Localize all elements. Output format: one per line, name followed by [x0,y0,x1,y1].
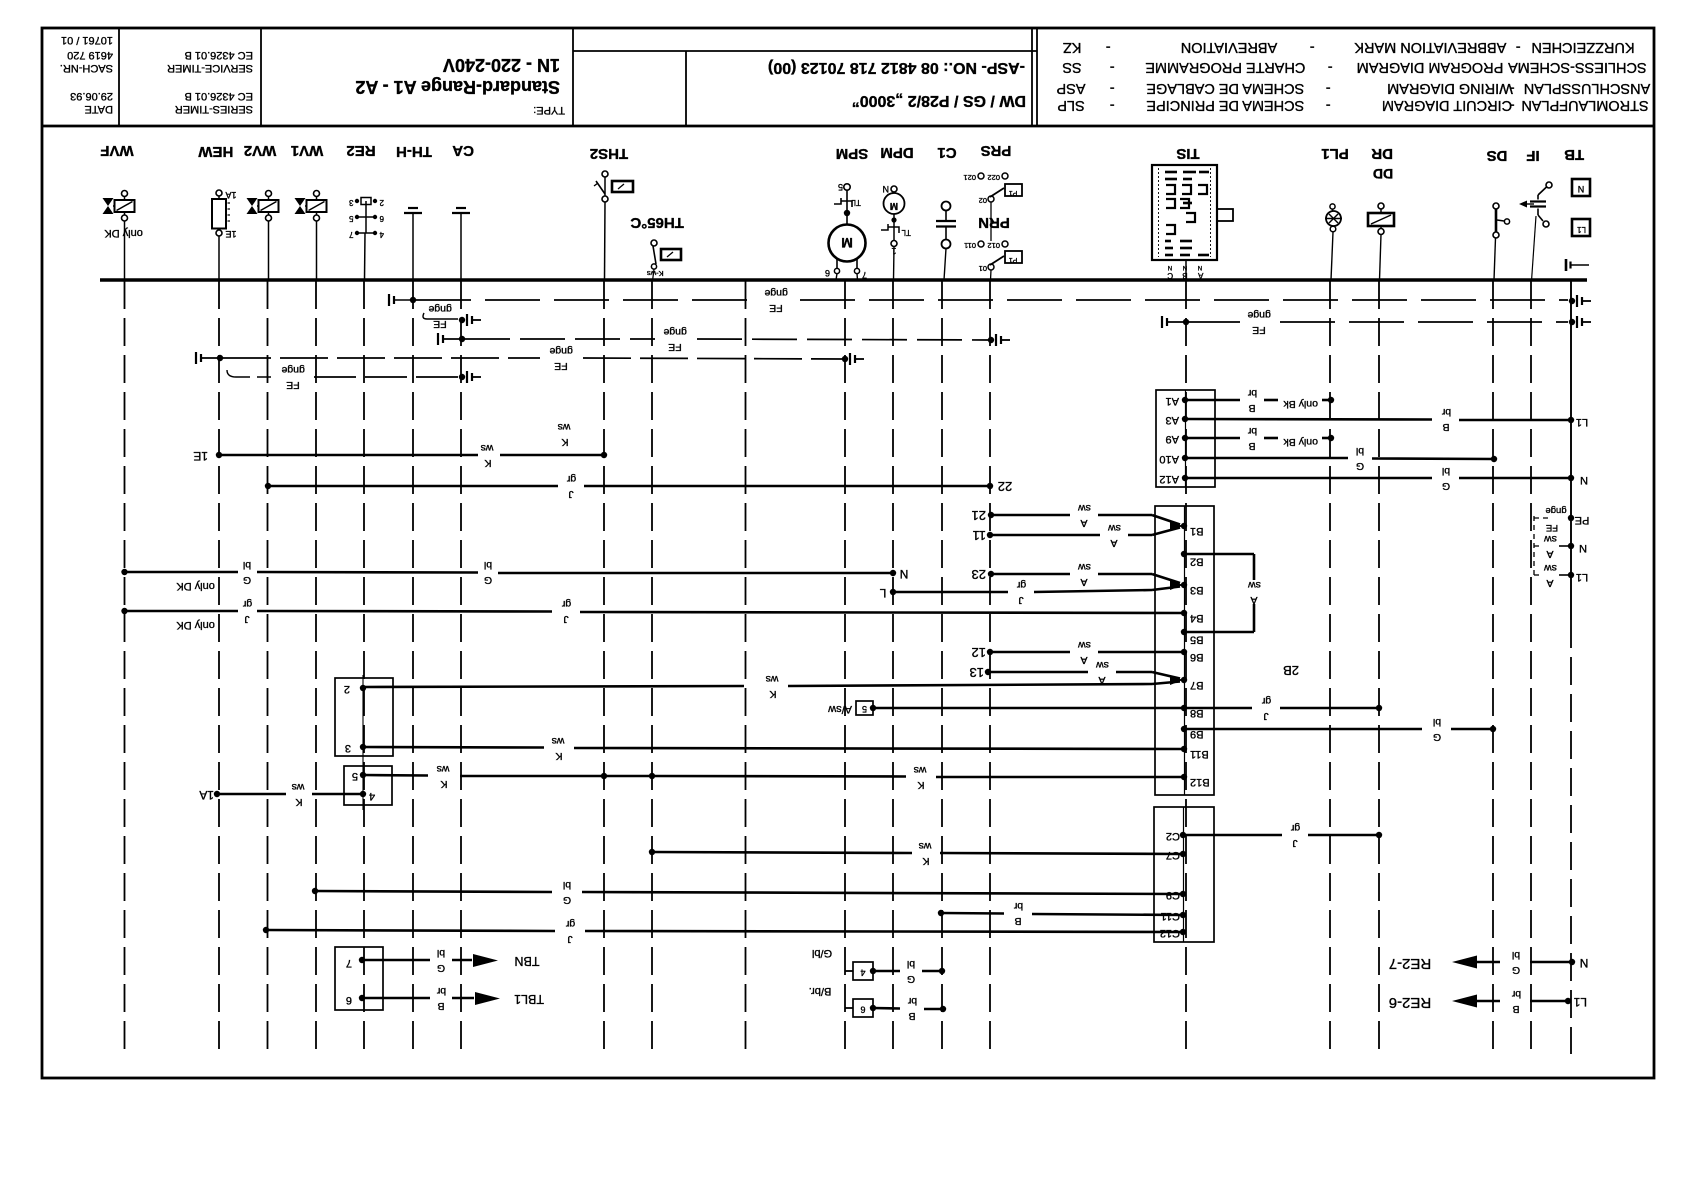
svg-text:N: N [1580,956,1589,970]
inline connector 4 green-blue [812,947,945,985]
svg-text:TL: TL [851,198,861,207]
timer connector A-block [1185,390,1187,487]
earth line FE row E [227,364,481,391]
svg-text:B4: B4 [1190,612,1203,624]
svg-text:SPM: SPM [836,145,869,162]
svg-text:-: - [1110,80,1115,96]
terminal box pins 7-6 [335,947,383,1010]
svg-text:N: N [900,567,909,581]
thermostat THS2 [590,145,633,280]
thermostat TH65&#176;C [630,214,684,281]
svg-text:B: B [1182,271,1187,280]
svg-text:6: 6 [379,214,384,223]
dashed group bracket at mains terminals [1534,516,1552,577]
svg-text:gnge: gnge [281,364,305,376]
svg-text:TH65°C: TH65°C [630,214,684,231]
svg-text:-ASP- NO.: 08 4812 718 70123: -ASP- NO.: 08 4812 718 70123 (00) [768,59,1025,76]
svg-text:sw: sw [1096,659,1109,671]
earth stub FE at CA column upper [423,303,481,330]
wire C12 grey left [263,918,1183,945]
svg-text:01: 01 [979,264,987,273]
wire RE2 pin3 white to B11 [363,735,1184,762]
svg-text:Standard-Range A1 - A2: Standard-Range A1 - A2 [355,77,560,97]
svg-text:TIS: TIS [1176,145,1199,162]
svg-text:CA: CA [452,142,474,159]
svg-text:4: 4 [369,790,375,802]
svg-text:bl: bl [1356,445,1364,457]
svg-text:EC 4326.01 B: EC 4326.01 B [185,90,254,102]
svg-text:A1: A1 [1166,395,1179,407]
svg-text:G: G [1512,964,1520,976]
svg-text:TBL1: TBL1 [514,992,544,1006]
svg-text:gr: gr [561,598,571,610]
svg-text:C1: C1 [937,144,956,161]
svg-text:J: J [567,933,572,945]
label 2B [1283,663,1299,678]
svg-text:gnge: gnge [663,326,687,338]
svg-text:N: N [1168,264,1172,270]
svg-text:only DK: only DK [104,227,143,239]
svg-text:-: - [1516,39,1521,55]
svg-text:ws: ws [481,442,495,454]
wire 22 grey [265,473,1012,500]
svg-text:K: K [484,457,491,469]
wire 1A white to connector4 [199,781,363,808]
terminal PE with earth label [1545,505,1589,533]
wire B8 grey right [1184,695,1382,722]
svg-text:sw: sw [1078,502,1091,514]
earth line FE row C [438,326,1010,353]
output RE2-6 brown [1389,988,1587,1015]
drain pump motor DPM [880,144,913,280]
svg-text:1A: 1A [225,190,236,200]
svg-text:bl: bl [563,879,571,891]
svg-text:G/bl: G/bl [812,947,832,959]
timer connector C-block [1154,807,1214,942]
terminal L1 mains [1544,562,1589,589]
svg-text:K: K [555,750,562,762]
svg-text:FE: FE [554,360,567,372]
svg-text:FE: FE [769,302,782,314]
svg-text:KZ: KZ [1063,39,1082,55]
svg-text:A: A [1546,577,1553,589]
wire TBN blue with arrow [362,947,540,974]
svg-text:-: - [1326,80,1331,96]
svg-text:2B: 2B [1283,663,1299,678]
svg-text:only Bk: only Bk [1283,436,1318,448]
output RE2-7 green-blue [1389,949,1589,976]
svg-text:IF: IF [1526,147,1539,164]
svg-text:021: 021 [963,173,976,182]
timer connector B-block [1155,506,1214,795]
svg-text:13: 13 [970,665,984,680]
svg-text:bl: bl [1442,465,1450,477]
svg-text:C2: C2 [1166,830,1180,842]
wire C2 grey right [1183,822,1382,849]
svg-text:A/sw: A/sw [828,703,852,715]
svg-text:K: K [561,436,568,448]
svg-text:PRN: PRN [978,214,1010,231]
svg-text:B2: B2 [1190,556,1203,568]
svg-text:sw: sw [1544,533,1557,545]
water valve WV2 [244,142,279,280]
wire A9 brown [1186,425,1334,452]
svg-text:br: br [1511,988,1521,1000]
svg-text:SCHLIESS-SCHEMA: SCHLIESS-SCHEMA [1508,59,1647,75]
svg-text:G: G [484,574,492,586]
terminal N mains [1544,533,1587,560]
svg-text:J: J [1292,837,1297,849]
svg-text:N: N [1198,264,1202,270]
svg-text:br: br [907,995,917,1007]
svg-text:TBN: TBN [515,954,540,968]
svg-text:br: br [1247,425,1257,437]
wire B8 black left with connector 5 [828,701,1184,715]
svg-text:G: G [1442,480,1450,492]
svg-text:gnge: gnge [764,287,788,299]
svg-text:SERVICE-TIMER: SERVICE-TIMER [167,62,253,74]
temperature sensor TH-H [396,143,432,280]
svg-text:1N - 220-240V: 1N - 220-240V [443,55,560,75]
drain relay DR [1368,145,1394,280]
svg-text:G: G [1433,731,1441,743]
svg-text:C: C [1167,271,1173,280]
svg-text:M: M [890,200,898,211]
svg-text:KURZZEICHEN: KURZZEICHEN [1531,39,1634,55]
pump motor SPM [825,145,868,280]
svg-text:FE: FE [433,318,446,330]
svg-text:ws: ws [437,763,451,775]
svg-text:02: 02 [979,196,987,205]
svg-text:A3: A3 [1166,414,1179,426]
svg-text:DD: DD [1373,166,1393,182]
svg-text:gr: gr [242,598,252,610]
svg-text:ASP: ASP [1056,80,1085,96]
svg-text:22: 22 [998,479,1012,494]
svg-text:TB: TB [1564,146,1584,163]
svg-text:bl: bl [243,559,251,571]
floating label K ws [558,421,572,448]
wire 11 black to B1 [973,521,1184,549]
svg-text:B3: B3 [1190,584,1203,596]
svg-text:FE: FE [1546,522,1558,533]
water valve WVF [100,142,143,280]
svg-text:SACH-NR.: SACH-NR. [60,62,113,74]
svg-text:PROGRAM DIAGRAM: PROGRAM DIAGRAM [1357,59,1504,75]
svg-text:gr: gr [1261,695,1271,707]
svg-text:ws: ws [766,673,780,685]
earth line FE row D [196,345,864,372]
terminal block TB [1564,146,1590,236]
wire C9 blue left [312,879,1183,906]
timer unit TIS [1152,145,1233,281]
svg-text:br: br [436,985,446,997]
water valve WV1 [291,142,327,280]
wire 21 black to B1 [972,502,1180,529]
svg-text:B12: B12 [1190,776,1210,788]
wire A3 brown to L1 [1186,406,1588,433]
svg-text:6: 6 [825,268,830,278]
svg-text:WVF: WVF [100,142,133,159]
pressure switch PRN [964,214,1022,280]
svg-text:ws: ws [292,781,306,793]
svg-text:3: 3 [345,742,351,754]
heater HEW [198,143,237,280]
wire A12 blue to N [1186,465,1588,492]
svg-text:TYPE:: TYPE: [533,104,565,116]
svg-text:P1: P1 [1009,189,1018,196]
svg-text:G: G [563,894,571,906]
svg-text:gr: gr [566,473,576,485]
svg-text:THS2: THS2 [590,145,628,162]
svg-text:-: - [1110,59,1115,75]
wire C7 white left [649,840,1183,867]
svg-text:1A: 1A [199,788,214,802]
svg-text:A: A [1080,576,1087,588]
plug pins 5-4 [344,766,392,810]
svg-text:1E: 1E [193,449,208,463]
svg-text:gr: gr [1016,579,1026,591]
svg-text:12: 12 [972,645,986,660]
capacitor C1 [936,144,957,280]
svg-text:-: - [1310,39,1315,55]
svg-text:G: G [1356,460,1364,472]
svg-text:022: 022 [987,173,1000,182]
svg-text:L1: L1 [1576,571,1588,583]
svg-text:ws: ws [552,735,566,747]
svg-text:PRS: PRS [981,142,1012,159]
svg-text:4: 4 [379,230,384,239]
svg-text:SLP: SLP [1057,97,1084,113]
svg-text:K: K [440,778,447,790]
svg-text:K-ws: K-ws [647,269,664,278]
svg-text:L1: L1 [1573,995,1587,1009]
title block divider lines [118,28,120,126]
svg-text:TH-H: TH-H [396,143,432,160]
door switch DS [1487,147,1510,280]
svg-text:sw: sw [1248,579,1261,591]
wire 1E white [193,442,607,469]
wire 12 black to B6 [972,639,1184,666]
svg-text:DPM: DPM [880,144,913,161]
svg-text:11: 11 [973,528,987,543]
chassis sensor CA [452,142,474,280]
svg-text:ws: ws [914,764,928,776]
svg-text:DS: DS [1487,147,1508,164]
wire connector5 white to B12 [363,763,1184,791]
strap B2-B5 black [1184,554,1261,632]
svg-text:ANSCHLUSSPLAN: ANSCHLUSSPLAN [1524,80,1651,96]
svg-text:HEW: HEW [198,143,234,160]
svg-text:A: A [1080,517,1087,529]
svg-text:sw: sw [1078,639,1091,651]
svg-text:B1: B1 [1190,525,1203,537]
svg-text:5: 5 [838,182,843,192]
svg-text:SERIES-TIMER: SERIES-TIMER [175,103,253,115]
svg-text:6: 6 [346,994,352,1006]
svg-text:A: A [1110,537,1117,549]
svg-text:PE: PE [1575,514,1590,526]
svg-text:7: 7 [349,230,354,239]
svg-text:J: J [1263,710,1268,722]
relay contacts RE2 [346,142,384,280]
svg-text:4: 4 [860,968,865,978]
svg-text:A9: A9 [1166,433,1179,445]
svg-text:P1: P1 [1009,256,1018,263]
wire C11 brown [938,900,1183,927]
earth line FE row B [1162,309,1591,336]
pilot lamp PL1 [1321,145,1349,280]
supply bus [100,278,1587,282]
svg-text:N: N [1579,542,1587,554]
svg-text:RE2: RE2 [346,142,375,159]
svg-text:bl: bl [1433,716,1441,728]
svg-text:B: B [1014,915,1021,927]
svg-text:-: - [1110,97,1115,113]
svg-text:21: 21 [972,508,986,523]
svg-text:B11: B11 [1190,748,1209,760]
svg-text:N: N [1580,474,1588,486]
svg-text:5: 5 [862,704,867,714]
svg-text:RE2-6: RE2-6 [1389,994,1432,1011]
svg-text:CIRCUIT DIAGRAM: CIRCUIT DIAGRAM [1382,97,1512,113]
svg-text:ABBREVIATION MARK: ABBREVIATION MARK [1354,39,1506,55]
svg-text:sw: sw [1108,522,1121,534]
earth line FE row A [389,287,1591,314]
interference filter IF [1519,147,1552,281]
svg-text:only DK: only DK [176,619,215,631]
svg-text:sw: sw [1544,562,1557,574]
svg-text:J: J [244,613,249,625]
timer program vertical lines [124,281,126,1054]
svg-text:sw: sw [1078,561,1091,573]
svg-text:A12: A12 [1159,473,1179,485]
svg-text:DW / GS / P28/2 „3000”: DW / GS / P28/2 „3000” [852,92,1026,109]
svg-text:K: K [922,855,929,867]
wire N grey-blue left [121,559,908,592]
svg-text:A10: A10 [1159,453,1179,465]
svg-text:A: A [1546,548,1553,560]
svg-text:only DK: only DK [176,580,215,592]
svg-text:-: - [1328,59,1333,75]
svg-text:7: 7 [346,957,352,969]
svg-text:K: K [917,779,924,791]
svg-text:B7: B7 [1190,679,1203,691]
svg-text:N: N [1578,184,1585,194]
svg-text:J: J [568,488,573,500]
svg-text:A: A [1080,654,1087,666]
svg-text:WIRING DIAGRAM: WIRING DIAGRAM [1387,80,1513,96]
svg-text:B5: B5 [1190,634,1203,646]
svg-text:3: 3 [349,198,354,207]
svg-text:PL1: PL1 [1321,145,1349,162]
svg-text:G: G [437,962,445,974]
wire B4 grey long [121,598,1185,631]
svg-text:2: 2 [344,683,350,695]
svg-text:G: G [243,574,251,586]
svg-text:B: B [1442,421,1449,433]
protective earth at TB [1566,259,1589,271]
svg-text:N: N [883,184,890,194]
svg-text:gnge: gnge [428,303,452,315]
svg-text:1E: 1E [225,229,236,239]
svg-text:FE: FE [286,379,299,391]
svg-text:WV1: WV1 [291,142,324,159]
svg-text:bl: bl [1512,949,1520,961]
pressure switch PRS [963,142,1022,241]
svg-text:FE: FE [668,341,681,353]
svg-text:5: 5 [352,770,358,782]
svg-text:-: - [1326,97,1331,113]
svg-text:B: B [1248,402,1255,414]
svg-text:10761 / 01: 10761 / 01 [61,34,113,46]
svg-text:gnge: gnge [1247,309,1271,321]
wire A1 brown [1186,387,1334,414]
svg-text:6: 6 [860,1005,865,1015]
svg-text:2: 2 [379,198,384,207]
svg-text:ws: ws [558,421,572,433]
svg-text:011: 011 [964,241,976,250]
svg-text:TL: TL [901,228,911,237]
wire L grey to B3 [879,579,1183,606]
svg-text:bl: bl [437,947,445,959]
svg-text:SCHEMA DE CABLAGE: SCHEMA DE CABLAGE [1146,80,1304,96]
svg-text:bl: bl [907,958,915,970]
svg-text:ABREVIATION: ABREVIATION [1181,39,1277,55]
wire 23 black to B3 [972,561,1180,588]
svg-text:FE: FE [1252,324,1265,336]
wire B9 blue right [1184,716,1496,743]
svg-text:J: J [563,613,568,625]
svg-text:L1: L1 [1577,225,1586,234]
svg-text:br: br [1013,900,1023,912]
svg-text:DATE: DATE [84,103,113,115]
wire TBL1 brown with arrow [362,985,544,1012]
svg-text:B6: B6 [1190,651,1203,663]
svg-text:bl: bl [484,559,492,571]
svg-text:K: K [769,688,776,700]
svg-text:29.06.93: 29.06.93 [70,90,113,102]
wire 13 black to B7 [970,659,1180,686]
svg-text:EC 4326.01 B: EC 4326.01 B [185,49,254,61]
svg-text:gr: gr [1290,822,1300,834]
wire RE2 pin2 white to B7 [363,673,1183,700]
svg-text:ws: ws [919,840,933,852]
svg-text:B: B [908,1010,915,1022]
svg-text:gnge: gnge [549,345,573,357]
svg-text:B/br.: B/br. [809,985,832,997]
svg-text:-: - [1106,39,1111,55]
svg-text:only Bk: only Bk [1283,398,1318,410]
svg-text:STROMLAUFPLAN: STROMLAUFPLAN [1521,97,1648,113]
svg-text:L1: L1 [1576,416,1588,428]
svg-text:gnge: gnge [1545,505,1566,516]
svg-text:5: 5 [349,214,354,223]
svg-text:CHARTE PROGRAMME: CHARTE PROGRAMME [1145,59,1305,75]
svg-text:br: br [1441,406,1451,418]
svg-text:WV2: WV2 [244,142,277,159]
svg-text:B: B [1512,1003,1519,1015]
svg-text:7: 7 [862,270,867,280]
svg-text:23: 23 [972,567,986,582]
inline connector 6 brown [809,985,947,1022]
svg-text:L: L [879,586,886,600]
svg-text:SS: SS [1062,59,1081,75]
svg-text:RE2-7: RE2-7 [1389,955,1432,972]
svg-text:A: A [1197,271,1203,280]
svg-text:br: br [1247,387,1257,399]
svg-text:DR: DR [1371,145,1393,162]
